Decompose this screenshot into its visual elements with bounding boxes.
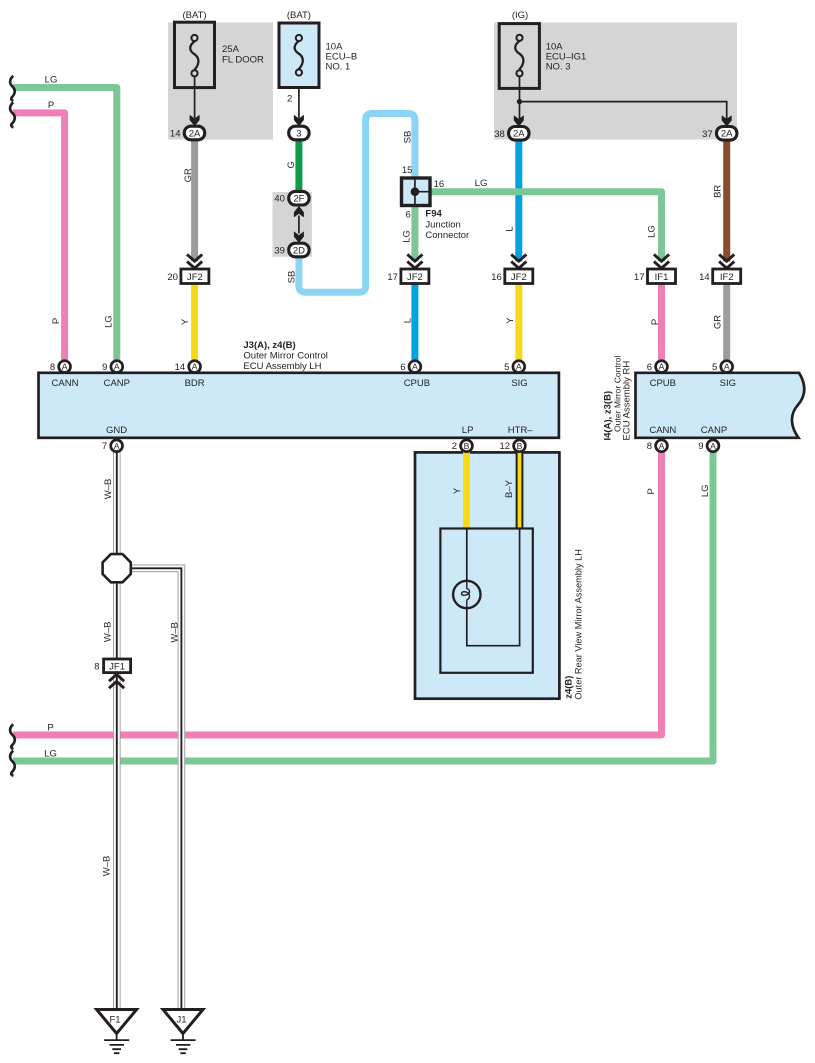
svg-text:40: 40 [274, 194, 285, 205]
svg-text:8: 8 [647, 441, 652, 452]
connector box 17 JF2 [401, 269, 429, 284]
svg-text:G: G [286, 161, 297, 168]
svg-text:W–B: W–B [103, 622, 114, 643]
wire W-B GND pin 7 to octagon junction [113, 452, 121, 557]
wire SB from 2D to F94 junction [299, 114, 415, 293]
wire GR from 14 IF2 to RH SIG pin 5 [723, 284, 730, 361]
svg-text:2F: 2F [293, 194, 304, 205]
svg-text:JF2: JF2 [187, 272, 203, 283]
bulb lamp [453, 581, 480, 608]
connector ellipse 3 [289, 126, 309, 140]
svg-text:20: 20 [167, 272, 178, 283]
svg-text:Connector: Connector [425, 230, 469, 241]
svg-text:A: A [114, 362, 120, 372]
pin 5 A SIG LH [513, 361, 525, 373]
svg-text:SB: SB [402, 131, 413, 144]
svg-text:CPUB: CPUB [650, 378, 676, 389]
svg-text:9: 9 [698, 441, 703, 452]
junction connector F94 [402, 178, 431, 206]
svg-text:CPUB: CPUB [404, 378, 430, 389]
svg-text:A: A [659, 362, 665, 372]
service box (FL DOOR fuse area) [168, 23, 273, 140]
svg-text:39: 39 [274, 246, 285, 257]
ECU RH box [636, 373, 805, 438]
fuse 10A ECU-IG1 [499, 24, 539, 89]
svg-text:IF2: IF2 [720, 272, 734, 283]
svg-text:Junction: Junction [425, 220, 460, 231]
svg-text:NO. 1: NO. 1 [326, 61, 351, 72]
pin 5 A SIG RH [721, 361, 733, 373]
svg-text:P: P [650, 319, 661, 325]
wire Y from JF2 to BDR pin 14 [191, 284, 198, 361]
svg-text:A: A [659, 441, 665, 451]
pin 9 A CANP LH [111, 361, 123, 373]
svg-text:CANN: CANN [649, 425, 676, 436]
svg-text:6: 6 [647, 362, 652, 373]
svg-text:GR: GR [183, 168, 194, 182]
svg-text:Y: Y [180, 318, 191, 325]
connector box 17 IF1 [648, 269, 676, 284]
wire W-B JF1 to ground F1 [113, 672, 121, 1010]
svg-text:6: 6 [400, 362, 405, 373]
svg-text:Outer Rear View Mirror Assembl: Outer Rear View Mirror Assembly LH [573, 549, 583, 699]
junction dot IG branch [517, 99, 522, 104]
svg-text:A: A [710, 441, 716, 451]
arrow into 38 2A [514, 115, 524, 127]
service box (2F/2D junction area) [273, 192, 312, 257]
svg-text:SIG: SIG [720, 378, 736, 389]
pin 6 A CPUB RH [656, 361, 668, 373]
svg-text:LP: LP [462, 425, 474, 436]
svg-text:8: 8 [50, 362, 55, 373]
connector ellipse 38 2A [509, 127, 529, 141]
ground J1 [163, 1010, 203, 1054]
wire between 2F and 2D [298, 216, 300, 234]
svg-text:14: 14 [170, 129, 181, 140]
ground F1 [97, 1010, 137, 1054]
break symbol P bottom [10, 724, 15, 749]
fuse 25A FL DOOR [175, 22, 215, 87]
arrow up at 2F [294, 206, 304, 218]
svg-text:SIG: SIG [511, 378, 527, 389]
chevron arrow into 17 IF1 [654, 254, 669, 268]
fuse 10A ECU-B [279, 23, 319, 88]
wire Y from 16 JF2 to SIG pin 5 [515, 284, 522, 361]
svg-text:L: L [505, 226, 516, 231]
svg-text:ECU Assembly RH: ECU Assembly RH [622, 361, 633, 441]
arrow into connector 3 [294, 115, 304, 127]
break symbol LG bottom [10, 751, 15, 776]
svg-text:JF1: JF1 [109, 661, 125, 672]
svg-text:P: P [48, 100, 54, 111]
svg-text:17: 17 [634, 272, 645, 283]
svg-text:A: A [516, 362, 522, 372]
pin 14 A BDR LH [189, 361, 201, 373]
svg-text:16: 16 [491, 272, 502, 283]
chevron arrow up into JF1 [109, 674, 124, 688]
svg-text:P: P [47, 723, 53, 734]
svg-text:37: 37 [702, 129, 713, 140]
svg-text:P: P [51, 318, 62, 324]
chevron arrow into 17 JF2 [407, 254, 422, 268]
svg-text:GR: GR [712, 315, 723, 329]
chevron arrow into 14 IF2 [719, 254, 734, 268]
svg-text:A: A [114, 441, 120, 451]
svg-text:2: 2 [287, 94, 292, 105]
connector box 20 JF2 [181, 269, 209, 284]
svg-text:W–B: W–B [101, 856, 112, 877]
svg-text:LG: LG [700, 484, 711, 497]
pin 8 A CANN LH [59, 361, 71, 373]
svg-text:B: B [464, 441, 470, 451]
wire BR from 37 2A to 14 IF2 [723, 140, 730, 262]
svg-text:9: 9 [102, 362, 107, 373]
wire LG from F94 pin 16 to 17 IF1 [429, 192, 662, 262]
svg-text:CANP: CANP [104, 378, 130, 389]
svg-text:A: A [412, 362, 418, 372]
break symbol P top [10, 102, 15, 127]
svg-text:(BAT): (BAT) [182, 10, 206, 21]
svg-text:2A: 2A [721, 129, 733, 140]
svg-text:2A: 2A [513, 129, 525, 140]
svg-text:GND: GND [106, 425, 127, 436]
svg-text:P: P [646, 488, 657, 494]
connector ellipse 39 2D [289, 243, 309, 257]
svg-text:LG: LG [401, 230, 412, 243]
break symbol LG top [10, 76, 15, 101]
svg-text:3: 3 [296, 128, 301, 139]
pin 12 B HTR- LH [514, 440, 526, 452]
svg-text:(IG): (IG) [512, 10, 528, 21]
svg-text:5: 5 [504, 362, 509, 373]
svg-text:6: 6 [406, 210, 411, 221]
svg-text:8: 8 [94, 661, 99, 672]
wire L from 17 JF2 to CPUB pin 6 [411, 284, 418, 361]
svg-text:A: A [192, 362, 198, 372]
svg-text:Y: Y [452, 487, 463, 494]
svg-text:W–B: W–B [103, 479, 114, 500]
ECU LH box [39, 373, 559, 438]
svg-text:LG: LG [646, 225, 657, 238]
svg-text:B: B [517, 441, 523, 451]
connector box 14 IF2 [713, 269, 741, 284]
svg-text:LG: LG [103, 315, 114, 328]
service box (IG fuse area) [494, 23, 737, 140]
svg-text:A: A [724, 362, 730, 372]
pin 6 A CPUB LH [409, 361, 421, 373]
svg-text:CANP: CANP [701, 425, 727, 436]
svg-text:(BAT): (BAT) [287, 10, 311, 21]
svg-text:2A: 2A [189, 128, 201, 139]
svg-text:5: 5 [712, 362, 717, 373]
connector ellipse 14 2A [184, 126, 204, 140]
svg-text:B–Y: B–Y [504, 479, 515, 498]
svg-text:BDR: BDR [185, 378, 205, 389]
arrow into 14 2A [190, 115, 200, 127]
wire LG bottom run to RH CANP pin 9 [13, 452, 713, 761]
svg-text:Outer Mirror Control: Outer Mirror Control [243, 351, 327, 362]
svg-text:17: 17 [387, 272, 398, 283]
svg-text:IF1: IF1 [655, 272, 669, 283]
svg-text:A: A [62, 362, 68, 372]
chevron arrow into 16 JF2 [511, 254, 526, 268]
svg-text:16: 16 [434, 179, 445, 190]
junction box 8 JF1 [104, 659, 131, 673]
ground junction octagon [103, 554, 131, 582]
svg-text:W–B: W–B [169, 622, 180, 643]
wire from ECU-B fuse to arrow [298, 76, 300, 118]
svg-text:ECU Assembly LH: ECU Assembly LH [243, 361, 321, 372]
wire Y from LP pin 2 into mirror [463, 452, 470, 529]
connector ellipse 37 2A [717, 127, 737, 141]
svg-text:LG: LG [475, 178, 488, 189]
svg-text:F1: F1 [109, 1014, 120, 1025]
svg-text:HTR–: HTR– [508, 425, 534, 436]
wire LG top-left to CANP pin 9 [13, 88, 117, 361]
wire P from 17 IF1 to RH CPUB pin 6 [658, 284, 665, 361]
pin 7 A GND LH [111, 440, 123, 452]
wire L from 38 2A to 16 JF2 [515, 140, 522, 262]
wire B-Y from HTR- pin 12 into mirror [516, 452, 524, 529]
svg-text:LG: LG [45, 74, 58, 85]
connector ellipse 40 2F [289, 191, 309, 205]
svg-text:JF2: JF2 [407, 272, 423, 283]
wire P bottom run to RH CANN pin 8 [13, 452, 662, 735]
wire W-B octagon to JF1 [113, 581, 121, 661]
mirror assembly outer box fill [415, 452, 559, 698]
wire P top-left to CANN pin 8 [13, 113, 65, 360]
svg-text:J1: J1 [176, 1014, 186, 1025]
svg-text:BR: BR [713, 185, 724, 198]
pin 9 A CANP RH [707, 440, 719, 452]
svg-text:15: 15 [402, 165, 413, 176]
wire W-B octagon branch to ground J1 [129, 568, 181, 1009]
svg-text:CANN: CANN [52, 378, 79, 389]
wire from IG fuse to arrows with branch [520, 77, 727, 120]
svg-text:2: 2 [452, 441, 457, 452]
wire G from fuse 3 to 2F [295, 140, 302, 192]
wire GR from 2A to JF2 [191, 140, 198, 262]
svg-text:JF2: JF2 [511, 272, 527, 283]
svg-text:J3(A), z4(B): J3(A), z4(B) [243, 340, 295, 351]
pin 2 B LP LH [461, 440, 473, 452]
mirror assembly inner boxes [440, 529, 532, 673]
svg-text:F94: F94 [425, 208, 442, 219]
svg-text:NO. 3: NO. 3 [546, 61, 571, 72]
pin 8 A CANN RH [656, 440, 668, 452]
svg-text:Y: Y [505, 317, 516, 324]
svg-text:38: 38 [494, 129, 505, 140]
svg-text:FL DOOR: FL DOOR [222, 55, 264, 66]
arrow down at 2D [294, 231, 304, 243]
svg-text:L: L [402, 318, 413, 323]
chevron arrow into 20 JF2 [187, 254, 202, 268]
svg-text:14: 14 [175, 362, 186, 373]
svg-text:LG: LG [44, 749, 57, 760]
svg-text:14: 14 [699, 272, 710, 283]
svg-text:7: 7 [102, 441, 107, 452]
svg-text:25A: 25A [222, 44, 240, 55]
wire from FL DOOR fuse to arrow [194, 77, 196, 119]
svg-text:2D: 2D [293, 245, 305, 256]
wire LG from F94 pin 6 to 17 JF2 [411, 204, 418, 262]
arrow into 37 2A [722, 115, 732, 127]
svg-text:SB: SB [287, 271, 298, 284]
svg-text:12: 12 [500, 441, 511, 452]
connector box 16 JF2 [505, 269, 533, 284]
